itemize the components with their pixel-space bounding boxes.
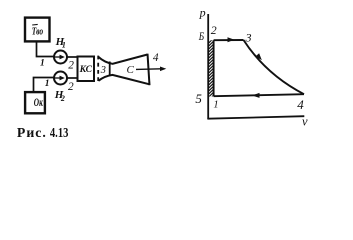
arrowhead on curve 3-4 [255, 53, 263, 62]
svg-text:1: 1 [40, 58, 45, 68]
svg-text:2: 2 [68, 81, 74, 93]
process line 2-3 (isobar) [214, 39, 244, 41]
wire pump2 to KC [67, 77, 77, 79]
process line 4-1 (isobar back) [214, 94, 304, 96]
nozzle top contour [98, 55, 147, 64]
svg-text:2: 2 [60, 94, 65, 103]
svg-text:5: 5 [195, 91, 202, 106]
process line 1-2 (isochore) [213, 40, 215, 96]
adiabat curve 3-4 [244, 40, 305, 94]
svg-text:4: 4 [297, 97, 304, 112]
svg-text:v: v [302, 115, 308, 129]
svg-text:3: 3 [100, 65, 106, 76]
svg-text:4.13: 4.13 [50, 125, 69, 140]
oxidizer tank box [25, 92, 45, 113]
svg-text:Тво: Тво [32, 25, 44, 37]
pump H2 arrow [55, 77, 60, 79]
fuel tank box [25, 18, 50, 42]
pump H1 arrow [55, 56, 60, 58]
arrowhead on 2-3 [228, 37, 235, 42]
v axis [207, 116, 304, 119]
svg-text:Ок: Ок [34, 97, 44, 109]
svg-text:4: 4 [153, 52, 159, 64]
arrowhead on 4-1 (pointing left) [252, 93, 260, 98]
combustion chamber box KC [78, 57, 95, 82]
pump H1 circle [54, 51, 67, 64]
throat section line [109, 62, 111, 76]
svg-text:Рис.: Рис. [17, 125, 47, 140]
nozzle exit edge [148, 54, 150, 85]
pump H2 circle [54, 72, 67, 85]
wire pump1 to KC [67, 56, 77, 58]
svg-text:С: С [127, 64, 135, 76]
dashed nozzle inlet plane [97, 56, 99, 84]
svg-text:1: 1 [213, 100, 218, 111]
svg-text:1: 1 [45, 79, 50, 89]
svg-text:1: 1 [62, 40, 66, 49]
exit flow arrow [136, 68, 161, 71]
svg-text:КС: КС [79, 65, 93, 75]
svg-text:2: 2 [68, 60, 74, 72]
overbar on Т [32, 23, 38, 26]
svg-text:p: p [199, 6, 206, 20]
wire tank1 to pump1 [37, 41, 55, 56]
wire tank2 to pump2 [34, 78, 55, 93]
svg-text:2: 2 [211, 23, 217, 37]
nozzle bottom contour [98, 75, 149, 84]
p axis [207, 14, 209, 119]
svg-text:Б: Б [198, 29, 204, 43]
svg-text:3: 3 [245, 31, 252, 45]
